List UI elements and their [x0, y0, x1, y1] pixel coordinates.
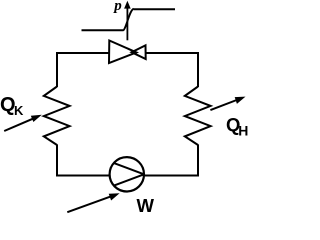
wire bottom-left segment: [56, 175, 110, 177]
QK flow arrow head: [31, 115, 42, 122]
wire top-right segment: [146, 52, 198, 54]
pressure graph step transition: [123, 9, 134, 31]
W input arrow head: [109, 193, 120, 200]
pressure arrow head: [124, 1, 131, 9]
label QH: [226, 114, 248, 139]
QK flow arrow line: [4, 119, 33, 131]
wire top-left segment: [57, 52, 109, 54]
pressure graph low line (left): [82, 29, 124, 31]
throttle valve left triangle: [109, 41, 136, 64]
heat exchanger QK zigzag (resistor symbol, left): [44, 87, 70, 146]
wire right lower: [197, 145, 199, 177]
label QK: [0, 94, 24, 118]
QH flow arrow line: [210, 100, 238, 111]
svg-text:p: p: [112, 0, 122, 14]
wire left lower: [56, 145, 58, 177]
pressure arrow line (vertical, through valve graph): [126, 6, 128, 40]
compressor upper chord: [114, 163, 144, 174]
wire left upper: [56, 52, 58, 87]
pressure graph high line (right): [134, 8, 175, 10]
wire right upper: [197, 52, 199, 87]
heat exchanger QH zigzag (resistor symbol, right): [185, 87, 211, 146]
svg-text:H: H: [238, 123, 248, 139]
compressor circle W: [110, 157, 144, 191]
QH flow arrow head: [235, 97, 246, 104]
compressor lower chord: [114, 174, 144, 185]
W input arrow line: [67, 196, 111, 212]
svg-text:K: K: [14, 103, 24, 118]
wire bottom-right segment: [144, 175, 199, 177]
svg-text:W: W: [137, 195, 155, 216]
throttle valve right triangle: [132, 45, 146, 59]
